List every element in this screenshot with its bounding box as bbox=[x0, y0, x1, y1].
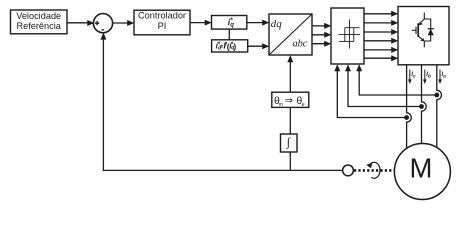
svg-text:Referência: Referência bbox=[16, 21, 61, 31]
svg-text:dq: dq bbox=[271, 18, 282, 30]
svg-text:M: M bbox=[410, 153, 433, 184]
svg-text:∫: ∫ bbox=[286, 135, 291, 149]
svg-text:m: m bbox=[279, 102, 283, 108]
svg-text:): ) bbox=[233, 41, 236, 51]
svg-text:⇒: ⇒ bbox=[285, 96, 293, 107]
svg-text:abc: abc bbox=[293, 39, 308, 50]
svg-text:q: q bbox=[230, 23, 234, 29]
svg-text:Velocidade: Velocidade bbox=[16, 11, 61, 21]
svg-text:e: e bbox=[302, 102, 305, 108]
svg-text:PI: PI bbox=[158, 21, 167, 31]
svg-text:Controlador: Controlador bbox=[138, 11, 186, 21]
